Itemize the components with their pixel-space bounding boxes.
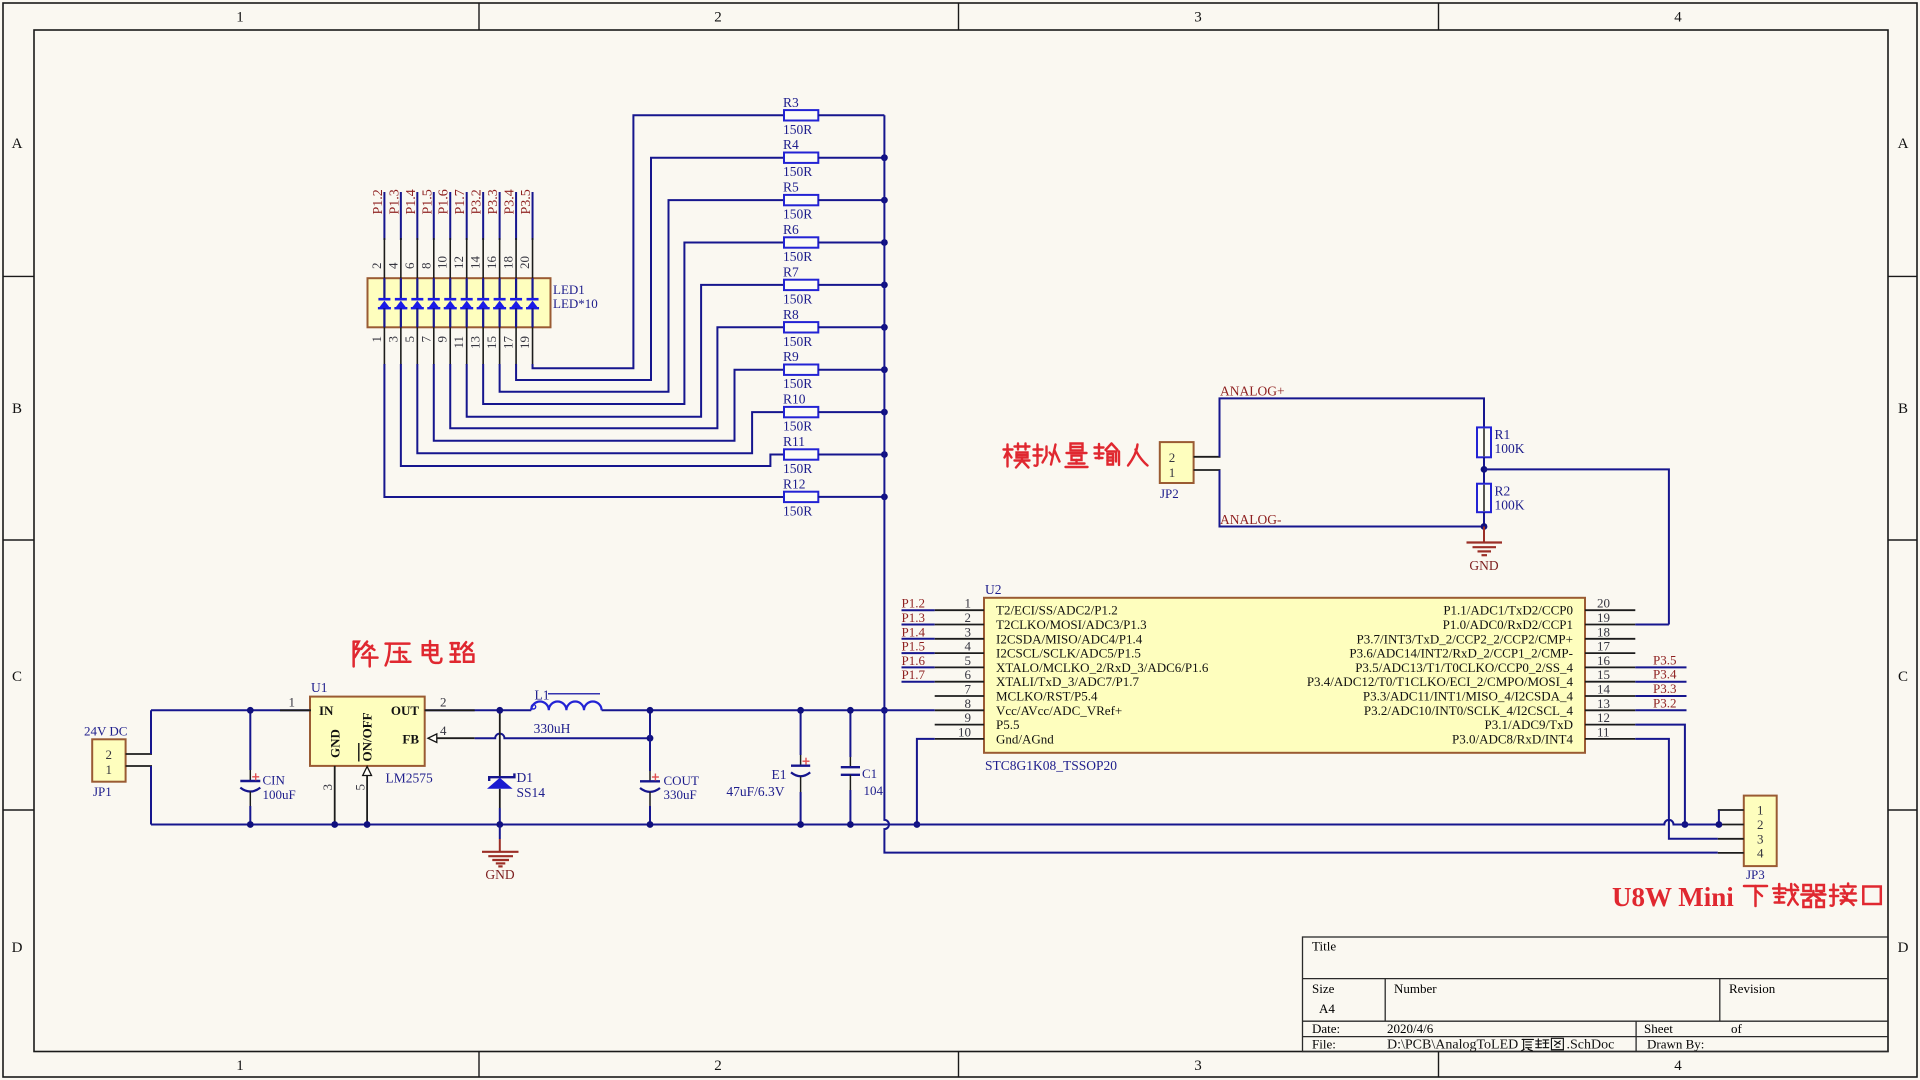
svg-text:4: 4 — [1674, 10, 1682, 26]
svg-text:150R: 150R — [783, 122, 812, 137]
U2 pin 14 (right) — [1585, 695, 1635, 697]
svg-text:7: 7 — [965, 682, 972, 697]
svg-text:150R: 150R — [783, 291, 812, 306]
connector JP1 body — [92, 739, 125, 781]
U2 pin 12 (right) — [1585, 724, 1635, 726]
connector JP2 body — [1160, 442, 1194, 483]
svg-text:.SchDoc: .SchDoc — [1567, 1038, 1615, 1053]
svg-text:ANALOG-: ANALOG- — [1220, 512, 1282, 527]
svg-text:MCLKO/RST/P5.4: MCLKO/RST/P5.4 — [996, 689, 1098, 704]
LED D7 inside LED1 — [482, 278, 484, 298]
svg-text:JP1: JP1 — [93, 784, 112, 799]
junction Gnd wire / GND rail — [914, 821, 921, 828]
svg-text:Drawn By:: Drawn By: — [1647, 1037, 1704, 1052]
svg-text:150R: 150R — [783, 207, 812, 222]
junction FB / COUT branch — [647, 735, 654, 742]
svg-text:3: 3 — [1194, 10, 1202, 26]
svg-text:R6: R6 — [783, 222, 799, 237]
svg-text:150R: 150R — [783, 249, 812, 264]
JP1 pin 1 stub — [126, 765, 152, 767]
svg-text:D: D — [1898, 940, 1909, 956]
svg-text:L1: L1 — [535, 688, 550, 703]
svg-text:6: 6 — [402, 262, 417, 269]
svg-text:D:\PCB\AnalogToLED: D:\PCB\AnalogToLED — [1387, 1038, 1518, 1053]
chinese char dian — [423, 641, 442, 663]
JP3 pin 3 stub — [1718, 838, 1744, 840]
svg-text:19: 19 — [517, 336, 532, 349]
chinese char jiang — [354, 642, 378, 667]
svg-text:D: D — [12, 940, 23, 956]
svg-text:U2: U2 — [985, 582, 1002, 597]
svg-text:3: 3 — [965, 624, 972, 639]
svg-text:R9: R9 — [783, 349, 799, 364]
LED1 pin 9 (bottom) pin and wire to R network — [449, 327, 451, 365]
JP3 pin 4 stub — [1718, 852, 1744, 854]
junction JP3 pin1 wire / bus — [1716, 821, 1723, 828]
junction U1 GND / rail — [331, 821, 338, 828]
wire JP1 pin1 to GND rail — [150, 766, 152, 825]
LED1 pin 2 (top) wire and pin — [383, 192, 385, 240]
U2 pin 19 (right) — [1585, 624, 1635, 626]
U2 pin 7 (left) — [935, 695, 984, 697]
svg-text:STC8G1K08_TSSOP20: STC8G1K08_TSSOP20 — [985, 758, 1117, 773]
chinese char ya — [386, 644, 411, 666]
junction at bus / R5 — [881, 197, 888, 204]
svg-text:File:: File: — [1312, 1037, 1336, 1052]
junction E1 bottom — [797, 821, 804, 828]
svg-text:Revision: Revision — [1729, 981, 1776, 996]
COUT polarity plus — [652, 774, 659, 781]
wire +24V rail left segment — [151, 709, 531, 711]
svg-text:14: 14 — [468, 256, 483, 270]
svg-text:ANALOG+: ANALOG+ — [1220, 384, 1285, 399]
resistor R3 — [784, 110, 818, 120]
svg-text:R10: R10 — [783, 392, 806, 407]
svg-text:FB: FB — [402, 732, 419, 747]
svg-text:XTALI/TxD_3/ADC7/P1.7: XTALI/TxD_3/ADC7/P1.7 — [996, 674, 1140, 689]
LED1 pin 13 (bottom) pin and wire to R network — [482, 327, 484, 365]
svg-text:2: 2 — [369, 263, 384, 270]
svg-text:R12: R12 — [783, 476, 806, 491]
wire net ANALOG- — [1220, 470, 1485, 527]
chinese char tu — [1551, 1038, 1563, 1049]
svg-text:COUT: COUT — [664, 773, 699, 788]
LED1 pin 15 (bottom) pin and wire to R network — [499, 327, 501, 365]
svg-text:1: 1 — [236, 10, 244, 26]
svg-text:B: B — [12, 401, 22, 417]
svg-text:9: 9 — [965, 710, 972, 725]
svg-text:5: 5 — [402, 336, 417, 343]
svg-text:2: 2 — [105, 747, 112, 762]
LED D3 inside LED1 — [416, 278, 418, 298]
svg-text:P3.2: P3.2 — [1653, 695, 1676, 710]
svg-text:100K: 100K — [1495, 441, 1525, 456]
connector JP3 body — [1744, 796, 1777, 867]
svg-text:1: 1 — [1757, 803, 1764, 818]
svg-text:5: 5 — [965, 653, 972, 668]
LED1 pin 4 (top) wire and pin — [400, 192, 402, 240]
svg-text:P5.5: P5.5 — [996, 717, 1019, 732]
svg-text:P3.3/ADC11/INT1/MISO_4/I2CSDA_: P3.3/ADC11/INT1/MISO_4/I2CSDA_4 — [1363, 689, 1574, 704]
svg-text:1: 1 — [289, 695, 296, 710]
wire R5 right to +5V bus — [818, 199, 884, 201]
svg-text:OUT: OUT — [391, 703, 420, 718]
svg-text:3: 3 — [320, 784, 335, 791]
svg-text:1: 1 — [965, 596, 972, 611]
svg-text:P3.4: P3.4 — [1653, 667, 1677, 682]
U2 pin 11 (right) — [1585, 738, 1635, 740]
svg-text:P1.3: P1.3 — [387, 189, 402, 214]
U2 pin 6 (left) — [902, 681, 935, 683]
svg-text:18: 18 — [501, 256, 516, 269]
svg-text:P1.7: P1.7 — [902, 667, 926, 682]
svg-text:I2CSCL/SCLK/ADC5/P1.5: I2CSCL/SCLK/ADC5/P1.5 — [996, 646, 1141, 661]
svg-text:14: 14 — [1597, 682, 1611, 697]
junction at bus / R12 — [881, 494, 888, 501]
svg-text:C: C — [1898, 669, 1908, 685]
junction CIN bottom — [247, 821, 254, 828]
LED1 pin 18 (top) wire and pin — [515, 192, 517, 240]
svg-text:1: 1 — [236, 1058, 244, 1074]
inductor L1 330uH — [531, 702, 601, 711]
svg-text:2: 2 — [1169, 450, 1176, 465]
LED D1 inside LED1 — [383, 278, 385, 298]
LED1 pin 5 (bottom) pin and wire to R network — [416, 327, 418, 365]
svg-text:R4: R4 — [783, 137, 799, 152]
svg-text:P3.5: P3.5 — [1653, 652, 1676, 667]
U1 pin 5 ON/OFF with input arrow — [363, 767, 372, 776]
JP1 pin 2 stub — [126, 753, 152, 755]
LED1 pin 20 (top) wire and pin — [532, 192, 534, 240]
svg-text:100uF: 100uF — [263, 787, 296, 802]
resistor R5 — [784, 195, 818, 205]
svg-text:20: 20 — [517, 256, 532, 269]
chinese char shu — [1095, 444, 1120, 466]
svg-text:P3.0/ADC8/RxD/INT4: P3.0/ADC8/RxD/INT4 — [1452, 731, 1573, 746]
svg-text:4: 4 — [965, 639, 972, 654]
chinese char lu — [451, 642, 474, 662]
junction bus / +5V rail — [881, 707, 888, 714]
svg-text:Title: Title — [1312, 939, 1336, 954]
U1 pin 1 — [280, 709, 311, 711]
chinese char liang — [1066, 444, 1088, 468]
U1 pin 2 — [425, 709, 475, 711]
svg-text:19: 19 — [1597, 610, 1610, 625]
junction COUT top — [647, 707, 654, 714]
svg-text:P3.4/ADC12/T0/T1CLKO/ECI_2/CMP: P3.4/ADC12/T0/T1CLKO/ECI_2/CMPO/MOSI_4 — [1307, 674, 1574, 689]
resistor R6 — [784, 237, 818, 247]
svg-text:U1: U1 — [311, 680, 328, 695]
svg-text:8: 8 — [965, 696, 972, 711]
svg-text:1: 1 — [1169, 465, 1176, 480]
chinese char li2 — [1536, 1039, 1549, 1048]
U2 pin 17 (right) — [1585, 652, 1635, 654]
svg-text:2020/4/6: 2020/4/6 — [1387, 1021, 1434, 1036]
svg-text:U8W Mini: U8W Mini — [1612, 882, 1734, 912]
U2 pin 3 (left) — [902, 638, 935, 640]
CIN polarity plus — [252, 773, 259, 780]
svg-text:P1.2: P1.2 — [902, 596, 925, 611]
wire R10 right to +5V bus — [818, 411, 884, 413]
chinese char yuan — [1522, 1039, 1534, 1050]
svg-text:GND: GND — [328, 729, 343, 758]
LED D4 inside LED1 — [433, 278, 435, 298]
svg-text:4: 4 — [1757, 845, 1764, 860]
junction D1 top — [496, 707, 503, 714]
svg-text:ON/OFF: ON/OFF — [359, 712, 374, 761]
LED1 pin 8 (top) wire and pin — [433, 192, 435, 240]
resistor R2 — [1477, 484, 1491, 513]
wire +5V rail right segment — [602, 709, 935, 711]
junction C1 top — [847, 707, 854, 714]
svg-text:P3.1/ADC9/TxD: P3.1/ADC9/TxD — [1485, 717, 1573, 732]
capacitor CIN — [249, 710, 251, 770]
svg-text:11: 11 — [1597, 724, 1610, 739]
diode D1 SS14 schottky — [499, 710, 501, 777]
wire R2 bottom to GND — [1483, 512, 1485, 526]
svg-text:I2CSDA/MISO/ADC4/P1.4: I2CSDA/MISO/ADC4/P1.4 — [996, 631, 1143, 646]
svg-text:150R: 150R — [783, 461, 812, 476]
svg-text:7: 7 — [418, 336, 433, 343]
chinese char kou — [1863, 887, 1881, 905]
svg-text:P3.3: P3.3 — [1653, 681, 1676, 696]
svg-text:6: 6 — [965, 667, 972, 682]
svg-text:10: 10 — [435, 256, 450, 269]
svg-text:D1: D1 — [517, 770, 534, 785]
svg-text:3: 3 — [385, 336, 400, 343]
wire JP3 pin1 to bus — [1718, 810, 1720, 825]
svg-text:of: of — [1731, 1021, 1743, 1036]
svg-text:150R: 150R — [783, 503, 812, 518]
svg-text:4: 4 — [1674, 1058, 1682, 1074]
svg-text:C1: C1 — [862, 766, 877, 781]
svg-text:P3.4: P3.4 — [503, 189, 518, 214]
U2 pin 15 (right) — [1585, 681, 1635, 683]
title block frame — [1303, 937, 1889, 1052]
junction at bus / R7 — [881, 282, 888, 289]
svg-text:LED*10: LED*10 — [553, 296, 598, 311]
svg-text:330uH: 330uH — [534, 721, 571, 736]
U2 pin 8 (left) — [935, 709, 984, 711]
svg-text:8: 8 — [418, 263, 433, 270]
title block texts — [1312, 939, 1776, 1052]
svg-text:P3.7/INT3/TxD_2/CCP2_2/CCP2/CM: P3.7/INT3/TxD_2/CCP2_2/CCP2/CMP+ — [1357, 631, 1573, 646]
chinese char zai — [1773, 884, 1798, 905]
svg-text:47uF/6.3V: 47uF/6.3V — [726, 784, 784, 799]
JP2 pin 2 stub — [1194, 456, 1221, 458]
svg-text:13: 13 — [1597, 696, 1610, 711]
junction R1/R2 — [1481, 466, 1488, 473]
svg-text:104: 104 — [864, 783, 884, 798]
LED1 pin 6 (top) wire and pin — [416, 192, 418, 240]
wire R9 right to +5V bus — [818, 369, 884, 371]
svg-text:16: 16 — [1597, 653, 1611, 668]
svg-text:150R: 150R — [783, 334, 812, 349]
chinese char qi — [1801, 885, 1825, 907]
wire JP1 pin2 to +24V rail — [150, 710, 152, 754]
U2 pin 5 (left) — [902, 666, 935, 668]
svg-text:GND: GND — [485, 867, 514, 882]
U1 pin 3 GND — [334, 766, 336, 825]
LED1 pin 19 (bottom) pin and wire to R network — [532, 327, 534, 365]
wire R12 right to +5V bus — [818, 496, 884, 498]
LED1 pin 1 (bottom) pin and wire to R network — [383, 327, 385, 365]
svg-text:A4: A4 — [1319, 1001, 1335, 1016]
svg-text:P1.0/ADC0/RxD2/CCP1: P1.0/ADC0/RxD2/CCP1 — [1443, 617, 1573, 632]
capacitor C1 104 — [849, 710, 851, 757]
resistor R4 — [784, 153, 818, 163]
svg-text:3: 3 — [1194, 1058, 1202, 1074]
svg-text:R5: R5 — [783, 180, 799, 195]
U2 pin 20 (right) — [1585, 609, 1635, 611]
junction at bus / R6 — [881, 239, 888, 246]
wire U2 pin11 (P3.0/RxD) to JP3 pin3 — [1635, 739, 1718, 839]
svg-text:P1.7: P1.7 — [453, 189, 468, 214]
wire R11 right to +5V bus — [818, 454, 884, 456]
svg-text:P1.2: P1.2 — [371, 189, 386, 214]
svg-text:2: 2 — [714, 1058, 722, 1074]
svg-text:13: 13 — [468, 336, 483, 349]
JP3 pin 1 stub — [1718, 809, 1744, 811]
svg-text:E1: E1 — [772, 767, 787, 782]
LED D6 inside LED1 — [466, 278, 468, 298]
wire R6 right to +5V bus — [818, 242, 884, 244]
wire net ANALOG+ — [1220, 398, 1485, 456]
svg-text:SS14: SS14 — [517, 785, 546, 800]
junction at bus / R10 — [881, 409, 888, 416]
LED D5 inside LED1 — [449, 278, 451, 298]
svg-text:1: 1 — [105, 762, 112, 777]
junction E1 top — [797, 707, 804, 714]
LED D9 inside LED1 — [515, 278, 517, 298]
E1 polarity plus — [803, 758, 810, 765]
svg-text:P3.2: P3.2 — [470, 189, 485, 214]
svg-text:Number: Number — [1394, 981, 1437, 996]
svg-text:18: 18 — [1597, 624, 1610, 639]
chinese char mo — [1004, 444, 1030, 468]
svg-text:C: C — [12, 669, 22, 685]
resistor R8 — [784, 322, 818, 332]
LED1 pin 3 (bottom) pin and wire to R network — [400, 327, 402, 365]
LED1 pin 11 (bottom) pin and wire to R network — [466, 327, 468, 365]
svg-text:15: 15 — [1597, 667, 1610, 682]
LED1 pin 10 (top) wire and pin — [449, 192, 451, 240]
svg-text:P1.3: P1.3 — [902, 610, 925, 625]
U2 pin 16 (right) — [1585, 666, 1635, 668]
LED1 pin 14 (top) wire and pin — [482, 192, 484, 240]
svg-text:2: 2 — [714, 10, 722, 26]
svg-text:24V DC: 24V DC — [84, 724, 127, 739]
connector LED1 body — [368, 278, 551, 327]
svg-text:A: A — [12, 136, 23, 152]
svg-text:12: 12 — [1597, 710, 1610, 725]
capacitor COUT — [649, 710, 651, 738]
svg-text:12: 12 — [451, 256, 466, 269]
svg-text:4: 4 — [440, 723, 447, 738]
svg-text:P1.4: P1.4 — [902, 624, 926, 639]
svg-text:JP2: JP2 — [1160, 486, 1179, 501]
svg-text:P3.2/ADC10/INT0/SCLK_4/I2CSCL_: P3.2/ADC10/INT0/SCLK_4/I2CSCL_4 — [1364, 703, 1574, 718]
svg-text:P3.3: P3.3 — [486, 189, 501, 214]
LED D10 inside LED1 — [531, 278, 533, 298]
svg-text:17: 17 — [501, 336, 516, 350]
U2 pin 9 (left) — [935, 724, 984, 726]
wire R4 right to +5V bus — [818, 157, 884, 159]
svg-text:11: 11 — [451, 336, 466, 349]
svg-text:P1.4: P1.4 — [404, 189, 419, 214]
svg-text:Sheet: Sheet — [1644, 1021, 1673, 1036]
wire stub net P3.2 — [1635, 709, 1686, 711]
junction at bus / R9 — [881, 366, 888, 373]
U2 pin 13 (right) — [1585, 709, 1635, 711]
svg-text:20: 20 — [1597, 596, 1610, 611]
junction at bus / R11 — [881, 451, 888, 458]
junction CIN top — [247, 707, 254, 714]
U2 pin 18 (right) — [1585, 638, 1635, 640]
svg-text:P1.6: P1.6 — [902, 653, 926, 668]
capacitor E1 47uF/6.3V — [800, 710, 802, 755]
junction COUT bottom — [647, 821, 654, 828]
svg-text:16: 16 — [484, 256, 499, 270]
resistor R10 — [784, 407, 818, 417]
wire R1-R2 node — [1483, 457, 1485, 483]
svg-text:P3.5: P3.5 — [519, 189, 534, 214]
svg-text:A: A — [1898, 136, 1909, 152]
chinese char ru — [1128, 445, 1148, 466]
wire stub net P3.3 — [1635, 695, 1686, 697]
svg-text:Vcc/AVcc/ADC_VRef+: Vcc/AVcc/ADC_VRef+ — [996, 703, 1122, 718]
svg-text:330uF: 330uF — [664, 787, 697, 802]
wire from R1/R2 node to U2 pin 19 — [1484, 469, 1669, 624]
junction U1 ON-OFF / rail — [364, 821, 371, 828]
svg-text:R7: R7 — [783, 264, 799, 279]
wire R8 right to +5V bus — [818, 326, 884, 328]
junction D1 bottom — [496, 821, 503, 828]
wire bus continues down with hop over GND rail — [884, 710, 1717, 852]
resistor R7 — [784, 280, 818, 290]
wire U2 pin10 Gnd to GND rail — [917, 739, 935, 825]
wire R7 right to +5V bus — [818, 284, 884, 286]
svg-text:P1.5: P1.5 — [902, 639, 925, 654]
chinese char jie — [1830, 884, 1856, 906]
wire stub net P3.5 — [1635, 666, 1686, 668]
wire +5V vertical bus right of resistors — [883, 115, 885, 710]
svg-text:T2CLKO/MOSI/ADC3/P1.3: T2CLKO/MOSI/ADC3/P1.3 — [996, 617, 1147, 632]
wire stub net P3.4 — [1635, 681, 1686, 683]
resistor R9 — [784, 365, 818, 375]
svg-text:P1.5: P1.5 — [420, 189, 435, 214]
wire GND bottom rail with hop — [151, 820, 1718, 825]
svg-text:P3.5/ADC13/T1/T0CLKO/CCP0_2/SS: P3.5/ADC13/T1/T0CLKO/CCP0_2/SS_4 — [1355, 660, 1573, 675]
svg-text:17: 17 — [1597, 639, 1611, 654]
svg-text:T2/ECI/SS/ADC2/P1.2: T2/ECI/SS/ADC2/P1.2 — [996, 603, 1118, 618]
svg-text:JP3: JP3 — [1746, 867, 1765, 882]
svg-text:R1: R1 — [1495, 427, 1511, 442]
LED D2 inside LED1 — [400, 278, 402, 298]
svg-text:P1.1/ADC1/TxD2/CCP0: P1.1/ADC1/TxD2/CCP0 — [1443, 603, 1573, 618]
svg-text:2: 2 — [1757, 817, 1764, 832]
svg-text:R2: R2 — [1495, 484, 1511, 499]
junction pin12 wire / JP3 bus — [1682, 821, 1689, 828]
LED1 pin 12 (top) wire and pin — [466, 192, 468, 240]
svg-text:100K: 100K — [1495, 498, 1525, 513]
svg-text:2: 2 — [965, 610, 972, 625]
wire U2 pin12 (P3.1/TxD) to JP3 — [1635, 725, 1685, 825]
svg-text:9: 9 — [435, 336, 450, 343]
U2 pin 4 (left) — [902, 652, 935, 654]
svg-text:R8: R8 — [783, 307, 799, 322]
svg-text:150R: 150R — [783, 164, 812, 179]
